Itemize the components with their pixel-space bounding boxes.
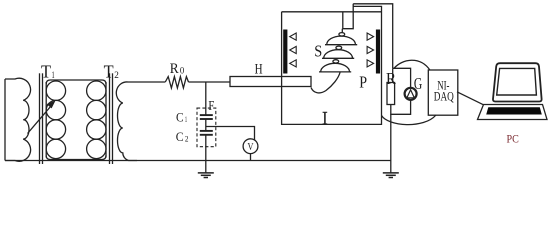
sample stack S: bell 3 (319, 60, 351, 72)
transformer T2 secondary winding (116, 82, 137, 161)
wire: left supply vertical (4, 79, 6, 161)
wire: tap to voltmeter (206, 127, 255, 141)
svg-text:C: C (176, 129, 184, 144)
ground (right) (383, 173, 399, 178)
svg-text:T: T (41, 61, 51, 81)
heater bar H (230, 77, 311, 87)
T2 core (109, 73, 111, 164)
svg-text:R: R (386, 69, 397, 88)
svg-text:DAQ: DAQ (434, 89, 454, 103)
cable: chamber to NI-DAQ (382, 115, 437, 125)
svg-text:S: S (314, 42, 322, 61)
PC laptop base (478, 105, 548, 120)
svg-text:C: C (176, 109, 184, 124)
wire between C1 and C2 (205, 119, 207, 131)
right electrode triangles (367, 33, 374, 40)
wire: H bar to stack bottom (311, 72, 340, 93)
cable: NI-DAQ to PC (457, 92, 484, 105)
gap G (405, 88, 417, 100)
svg-text:2: 2 (114, 70, 119, 80)
NI-DAQ box (428, 70, 458, 115)
left electrode triangles (290, 33, 297, 40)
svg-text:P: P (359, 72, 367, 91)
left electrode bar (283, 30, 287, 74)
svg-text:F: F (208, 99, 214, 114)
wire: T1 secondary side line (45, 82, 47, 158)
capacitor C1 (200, 114, 213, 116)
cable: R node to NI-DAQ (394, 60, 430, 70)
wire: junction to G branch (393, 68, 411, 88)
svg-text:2: 2 (185, 133, 189, 143)
variac arrow across T1 (28, 100, 56, 133)
svg-text:0: 0 (180, 67, 185, 77)
wire R bottom (391, 100, 411, 115)
wire: HV lead chamber top to measuring branch (353, 4, 393, 69)
svg-text:1: 1 (185, 114, 187, 124)
right electrode bar (376, 30, 380, 74)
wire: shunt to ground (390, 114, 392, 172)
voltmeter V (243, 139, 258, 154)
wire: loop bottom (46, 156, 106, 160)
ground (below filter) (198, 161, 214, 178)
top bus wire left of R0 (136, 81, 165, 83)
resistor R (shunt) (387, 83, 395, 105)
svg-text:R: R (170, 61, 179, 77)
label I (323, 112, 328, 124)
svg-text:1: 1 (52, 70, 55, 80)
svg-text:V: V (248, 142, 254, 153)
PC laptop keyboard band (486, 107, 542, 114)
resistor R0 (165, 77, 188, 88)
wire R0 to H (189, 81, 231, 83)
transformer T1 primary winding (5, 78, 31, 161)
stem bushing to sample stack (341, 29, 343, 33)
wire V to bottom bus (250, 154, 252, 161)
HV bushing rectangle on chamber top (343, 4, 353, 29)
svg-text:G: G (414, 74, 422, 93)
svg-text:H: H (255, 62, 263, 78)
capacitor C2 (200, 130, 213, 132)
wire: junction down to filter capacitors (205, 82, 207, 115)
T2 primary turns (circles) (87, 81, 106, 100)
dashed box F (capacitive divider) (197, 108, 216, 147)
bottom bus wire (5, 160, 391, 162)
T1 core (39, 73, 41, 164)
svg-text:PC: PC (507, 131, 519, 145)
wire: T2 primary side line (105, 82, 107, 158)
T1 secondary turns (circles) (46, 81, 65, 100)
sample stack S: bell 1 (325, 33, 357, 45)
svg-text:T: T (104, 61, 114, 81)
PC laptop screen (493, 63, 542, 101)
wire R top (392, 68, 394, 82)
wire C2 to bottom bus (205, 135, 207, 161)
wire: loop top (46, 80, 106, 84)
sample stack S: bell 2 (322, 46, 354, 58)
winding loop: T1 secondary / T2 primary (stacked turns) (46, 80, 106, 160)
test chamber box (282, 6, 382, 124)
